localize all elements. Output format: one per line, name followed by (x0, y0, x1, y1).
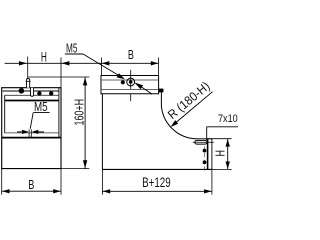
radius arrow to center mark (134, 82, 143, 89)
web right edge upper (160, 93, 162, 103)
M5 thread stud at flange (28, 129, 30, 137)
H arrow bottom (226, 162, 230, 170)
svg-text:B+129: B+129 (142, 174, 171, 190)
B+129 dimension line (102, 190, 211, 192)
stud slot below plate (31, 88, 34, 97)
screw dot 2 (37, 91, 41, 95)
foot end plate inner edge (thick) (207, 139, 209, 170)
B+129 ext line left (101, 169, 103, 194)
front view inner right edge (58, 88, 60, 138)
bottom flange thick line (2, 137, 61, 139)
opening left edge (4, 95, 6, 133)
7x10 leader horizontal (207, 126, 238, 128)
B ext line right (158, 58, 160, 76)
slot center line (193, 141, 214, 143)
B arrow left (2, 189, 10, 193)
160+H bottom extension line (61, 168, 89, 170)
opening bottom line (5, 132, 59, 134)
foot outer right edge (211, 139, 213, 170)
foot hole lower (203, 160, 207, 164)
H bottom extension line (212, 168, 232, 170)
svg-text:M5: M5 (66, 41, 77, 56)
plate inner line upper (102, 79, 158, 81)
H arrow left (outside) (19, 61, 27, 65)
curved web (R 180-H arc) (161, 103, 197, 139)
M5 stud above plate (27, 79, 30, 88)
B arrow left (102, 61, 110, 65)
radius line (176, 92, 213, 123)
svg-text:7x10: 7x10 (218, 113, 238, 125)
M5 leader (83, 54, 120, 76)
B+129 arrow right (204, 189, 212, 193)
screw head dot left (19, 88, 25, 94)
B arrow right (53, 189, 61, 193)
B ext line left (1, 169, 3, 195)
B ext line left (101, 58, 103, 76)
7x10 leader vertical (206, 127, 208, 140)
arrow left at stud (17, 131, 24, 133)
weld tab at plate right (159, 89, 163, 93)
foot hole upper (203, 149, 207, 153)
M5 leader arrowhead (117, 73, 125, 79)
screw dot on plate (121, 80, 125, 84)
H extension line right (60, 58, 62, 88)
H arrow right (outside) (61, 61, 69, 65)
stud thread tick (26, 80, 31, 82)
center line vertical (dashed) (130, 70, 132, 89)
svg-text:H: H (41, 48, 47, 64)
H arrow top (226, 139, 230, 147)
plate inner line lower (102, 88, 158, 90)
svg-text:H: H (213, 150, 227, 157)
H top extension line (208, 138, 232, 140)
svg-text:M5: M5 (34, 99, 48, 114)
arrow right at stud (36, 131, 44, 133)
web left edge (101, 94, 103, 170)
slot 7x10 (195, 140, 207, 144)
svg-text:B: B (28, 177, 34, 192)
dimension line H and B (continuous) (5, 62, 159, 64)
B arrow right (151, 61, 159, 65)
top plate bottom thick line (5, 100, 59, 102)
160+H dimension line (84, 77, 86, 169)
svg-text:B: B (128, 47, 134, 62)
top plate line 3 (5, 94, 59, 96)
B+129 ext line right (211, 169, 213, 194)
center mark circle (127, 78, 135, 86)
front view outline (2, 88, 61, 169)
foot bottom edge (102, 168, 211, 170)
M5 leader line (30, 113, 33, 129)
top plate line 2 (3, 90, 59, 92)
H dimension line (227, 139, 229, 170)
foot holes center line (204, 147, 206, 172)
B ext line right (60, 169, 62, 195)
160+H arrow bottom (83, 160, 87, 168)
M5 underline (65, 53, 83, 55)
160+H top extension line (28, 76, 89, 78)
M5 underline (34, 112, 50, 114)
svg-text:160+H: 160+H (73, 99, 87, 126)
foot top edge (197, 138, 212, 140)
B dimension line (2, 190, 61, 192)
160+H arrow top (83, 77, 87, 85)
radius arrowhead at arc (171, 120, 179, 127)
screw dot 3 (49, 91, 53, 95)
B+129 arrow left (103, 189, 111, 193)
H extension line left (stud axis) (27, 57, 29, 79)
side view top plate outline (101, 76, 159, 94)
